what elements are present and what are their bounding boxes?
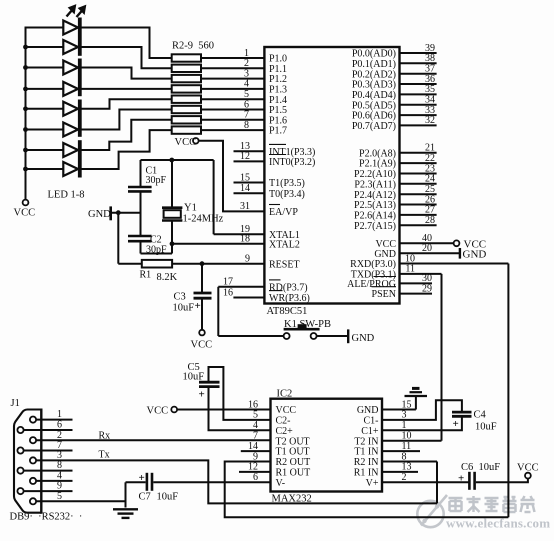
capacitor C6 (468, 472, 471, 490)
wire R4 to pin 3 (201, 78, 264, 80)
svg-text:10uF: 10uF (475, 422, 497, 433)
svg-text:P0.5(AD5): P0.5(AD5) (352, 100, 396, 111)
wire C2 bottom to XTAL2 (140, 241, 142, 253)
svg-text:29: 29 (422, 283, 432, 294)
node GND junction (116, 210, 121, 215)
capacitor C2 (128, 235, 152, 238)
wire DB9 pin8 stub (24, 470, 73, 472)
wire R2IN to Tx net (382, 461, 437, 463)
svg-text:7: 7 (253, 431, 258, 442)
svg-text:38: 38 (425, 53, 435, 64)
svg-text:20: 20 (422, 243, 432, 254)
LED D2 (26, 46, 64, 48)
LED D1 (26, 27, 64, 29)
node LED bus junction 2 (23, 45, 28, 50)
svg-text:22: 22 (425, 153, 435, 164)
wire LED2 to R3 (80, 47, 172, 68)
node XTAL2 junction (170, 241, 175, 246)
wire V+ pin2 to C6 (382, 481, 469, 483)
svg-text:T0(P3.4): T0(P3.4) (269, 189, 305, 200)
connector pin 1 (30, 417, 36, 423)
switch K1 contact right (311, 333, 317, 339)
svg-text:36: 36 (425, 74, 435, 85)
resistor R4 (172, 75, 201, 82)
wire Tx net DB9 pin3 (36, 460, 437, 503)
svg-text:26: 26 (425, 194, 435, 205)
wire LED8 to R9 (80, 130, 172, 169)
svg-text:P1.7: P1.7 (269, 126, 287, 137)
svg-text:GND: GND (88, 209, 111, 220)
wire P2.6 stub (400, 214, 437, 216)
overline INT0 (269, 154, 286, 156)
svg-text:T1 IN: T1 IN (354, 447, 378, 458)
svg-text:AT89C51: AT89C51 (267, 306, 308, 317)
wire P0.0 stub (400, 52, 437, 54)
svg-text:12: 12 (240, 151, 250, 162)
connector pin 9 (17, 488, 23, 494)
svg-text:C7: C7 (139, 492, 151, 503)
svg-text:EA/VP: EA/VP (269, 207, 298, 218)
power VCC terminal (C3) (199, 330, 205, 336)
node LED bus junction 3 (23, 65, 28, 70)
svg-text:VCC: VCC (14, 208, 36, 219)
connector pin 2 (30, 437, 36, 443)
wire C1 top leg (140, 160, 142, 186)
overline INT1 (269, 143, 286, 145)
node RESET junction (200, 261, 205, 266)
LED light-emission arrows (67, 6, 85, 17)
svg-text:16: 16 (223, 287, 233, 298)
wire C3 bottom leg (201, 298, 203, 330)
wire P2.1 stub (400, 162, 437, 164)
svg-text:GND: GND (357, 405, 379, 416)
svg-text:LED 1-8: LED 1-8 (48, 190, 85, 201)
svg-text:C1-: C1- (364, 416, 379, 427)
wire C6 to VCC (476, 479, 528, 483)
switch K1 contact left (284, 333, 290, 339)
wire DB9 pin5 to GND (36, 500, 125, 502)
wire pin 40 VCC (400, 242, 454, 244)
svg-text:5: 5 (57, 491, 62, 502)
svg-text:P2.5(A13): P2.5(A13) (354, 200, 396, 211)
svg-text:C2-: C2- (276, 416, 291, 427)
wire C1-C2 mid leg (140, 191, 142, 236)
switch K1 actuator (284, 328, 320, 331)
svg-text:+: + (453, 418, 459, 430)
svg-text:VCC: VCC (276, 405, 297, 416)
svg-text:P0.7(AD7): P0.7(AD7) (352, 121, 396, 132)
wire LED6 to R7 (80, 110, 172, 130)
capacitor C5 (199, 381, 220, 384)
svg-text:Rx: Rx (99, 430, 111, 441)
resistor R5 (172, 85, 201, 92)
wire C1- pin3 to C4 top (382, 400, 462, 420)
wire C7 to V- (153, 481, 270, 483)
wire R1IN stub (382, 471, 418, 473)
svg-text:T2 IN: T2 IN (354, 436, 378, 447)
wire DB9 pin9 stub (24, 490, 73, 492)
svg-text:+: + (199, 389, 205, 401)
svg-text:6: 6 (253, 472, 258, 483)
capacitor C4 (452, 411, 472, 414)
svg-text:PSEN: PSEN (372, 289, 396, 300)
LED D6 (26, 129, 64, 131)
svg-text:C1+: C1+ (361, 426, 379, 437)
node LED bus junction 6 (23, 127, 28, 132)
resistor R9 (172, 126, 201, 133)
wire C5 top to C2- pin5 (209, 367, 271, 420)
wire P0.4 stub (400, 93, 437, 95)
crystal Y1 (171, 160, 173, 207)
wire GND pin15 (382, 409, 416, 411)
LED D7 (26, 149, 64, 151)
ground symbol (IC2 pin15) (405, 395, 428, 397)
wire R5 to pin 4 (201, 88, 264, 90)
svg-text:30pF: 30pF (146, 175, 167, 186)
wire Rx net DB9 pin2 to T2OUT (36, 439, 270, 441)
wire LED3 to R4 (80, 68, 172, 79)
svg-text:10uF: 10uF (183, 372, 205, 383)
wire pin 14 stub (234, 192, 265, 194)
wire P2.5 stub (400, 204, 437, 206)
wire R6 to pin 5 (201, 98, 264, 100)
LED cathode bar pair 3 (78, 100, 82, 137)
node LED bus junction 5 (23, 106, 28, 111)
wire R2OUT to RXD net (225, 462, 509, 518)
wire P2.0 stub (400, 152, 437, 154)
svg-text:1: 1 (57, 409, 62, 420)
svg-text:R1: R1 (140, 270, 152, 281)
wire C3 top leg (201, 264, 203, 293)
wire R3 to pin 2 (201, 67, 264, 69)
overline RD (269, 279, 281, 281)
wire XTAL1 branch (213, 160, 215, 234)
svg-text:IC2: IC2 (277, 389, 293, 400)
wire XTAL2 row (172, 243, 264, 245)
wire R7 to pin 6 (201, 109, 264, 111)
capacitor C3 (194, 292, 212, 295)
svg-text:Y1: Y1 (184, 203, 197, 214)
wire P0.1 stub (400, 62, 437, 64)
ground bar (pin20) (459, 248, 461, 259)
wire TXD(P3.1) to T2IN net (400, 273, 442, 275)
wire LED1 to R2 (80, 28, 172, 59)
LED cathode bar pair 1 (78, 18, 82, 56)
svg-text:11: 11 (405, 264, 415, 275)
wire LED7 to R8 (80, 120, 172, 150)
wire R1OUT stub (239, 471, 271, 473)
op-amp U2 MAX232 body (271, 399, 383, 492)
svg-text:34: 34 (425, 95, 435, 106)
wire P0.3 stub (400, 83, 437, 85)
wire T1OUT stub (241, 450, 271, 452)
wire C4 bottom to C1+ pin1 (382, 416, 462, 430)
resistor R6 (172, 96, 201, 103)
svg-text:R2 OUT: R2 OUT (276, 457, 311, 468)
wire pin 15 stub (234, 182, 265, 184)
wire VCC bus vertical (25, 27, 27, 200)
svg-text:P0.1(AD1): P0.1(AD1) (352, 59, 396, 70)
svg-text:28: 28 (425, 215, 435, 226)
wire DB9 pin6 stub (24, 429, 73, 431)
svg-text:8: 8 (244, 120, 249, 131)
svg-text:MAX232: MAX232 (272, 494, 312, 505)
node crystal top junction (169, 158, 174, 163)
svg-text:+: + (139, 472, 145, 484)
wire pin 12 stub (234, 160, 265, 162)
svg-text:RXD(P3.0): RXD(P3.0) (350, 259, 396, 270)
svg-text:C3: C3 (174, 292, 186, 303)
overline WR (269, 290, 283, 292)
svg-text:10uF: 10uF (173, 303, 195, 314)
svg-text:RD(P3.7): RD(P3.7) (269, 282, 308, 293)
svg-text:J1: J1 (11, 398, 20, 409)
svg-text:P0.3(AD3): P0.3(AD3) (352, 80, 396, 91)
wire T1IN stub (382, 450, 420, 452)
wire LED4 to R5 (80, 88, 172, 90)
watermark elecfans logo (417, 495, 447, 527)
wire LED5 to R6 (80, 99, 172, 109)
power VCC terminal (LED bus) (23, 200, 29, 206)
wire RD down to K1 (217, 287, 219, 336)
LED D5 (26, 108, 64, 110)
svg-text:VCC: VCC (517, 463, 539, 474)
wire PSEN stub (400, 293, 433, 295)
wire P0.7 stub (400, 124, 437, 126)
svg-text:VCC: VCC (191, 340, 213, 351)
wire P0.6 stub (400, 114, 437, 116)
svg-text:R2 IN: R2 IN (354, 457, 379, 468)
LED D8 (26, 168, 64, 170)
LED cathode bar pair 2 (78, 59, 82, 97)
wire T2IN pin10 (382, 440, 442, 442)
capacitor C7 (146, 473, 149, 491)
resistor R2 (172, 54, 201, 61)
svg-text:R1 IN: R1 IN (354, 468, 379, 479)
wire GND leg (C7) (125, 482, 127, 507)
LED D4 (26, 88, 64, 90)
wire XTAL top net (141, 159, 214, 161)
LED cathode bar pair 4 (78, 140, 82, 177)
svg-text:C4: C4 (474, 410, 487, 421)
node LED bus junction 8 (23, 167, 28, 172)
wire WR stub (233, 297, 264, 299)
wire DB9 pin4 stub (36, 480, 72, 482)
wire K1 to GND (317, 335, 349, 337)
svg-text:INT0(P3.2): INT0(P3.2) (269, 157, 315, 168)
svg-text:14: 14 (240, 183, 250, 194)
wire pin 13 stub (234, 150, 265, 152)
wire ALE stub (400, 282, 433, 284)
wire VCC to pin16 (177, 409, 270, 411)
overline PROG (374, 276, 397, 278)
power VCC terminal (C6) (525, 473, 531, 479)
svg-text:T1 OUT: T1 OUT (276, 447, 310, 458)
op-amp U1 AT89C51 body (264, 47, 399, 304)
svg-text:P2.1(A9): P2.1(A9) (359, 159, 396, 170)
overline EA (269, 204, 280, 206)
svg-text:Tx: Tx (99, 450, 110, 461)
connector pin 5 (30, 498, 36, 504)
svg-text:XTAL2: XTAL2 (269, 239, 300, 250)
connector pin 6 (17, 427, 23, 433)
overline PSEN (372, 286, 397, 288)
svg-text:P2.3(A11): P2.3(A11) (354, 179, 396, 190)
svg-text:+: + (195, 300, 201, 312)
svg-text:RESET: RESET (269, 259, 300, 270)
connector pin 3 (30, 457, 36, 463)
svg-text:T2 OUT: T2 OUT (276, 436, 310, 447)
LED D3 (26, 67, 64, 69)
wire P0.5 stub (400, 104, 437, 106)
svg-text:WR(P3.6): WR(P3.6) (269, 293, 310, 304)
resistor R1 (142, 260, 172, 268)
svg-text:VCC: VCC (147, 405, 169, 416)
wire RESET row (172, 263, 264, 265)
wire C7 left leg (126, 481, 146, 483)
connector pin 8 (17, 468, 23, 474)
svg-text:32: 32 (425, 115, 435, 126)
wire GND down to R1 (117, 213, 119, 264)
svg-text:8.2K: 8.2K (157, 272, 178, 283)
resistor R7 (172, 106, 201, 113)
svg-text:1-24MHz: 1-24MHz (183, 214, 224, 225)
wire R8 to pin 7 (201, 119, 264, 121)
svg-text:10uF: 10uF (157, 492, 179, 503)
capacitor C1 (128, 186, 152, 189)
wire R2 to pin 1 (201, 57, 264, 59)
svg-text:V+: V+ (366, 478, 379, 489)
wire P2.2 stub (400, 173, 437, 175)
svg-text:V-: V- (276, 478, 286, 489)
svg-text:GND: GND (352, 333, 375, 344)
wire R9 to pin 8 (201, 129, 264, 131)
ground symbol (C7) (113, 508, 138, 510)
connector pin 4 (30, 478, 36, 484)
wire VCC to EA/VP (199, 141, 265, 212)
wire RXD(P3.0) to R2OUT net (400, 263, 509, 265)
wire pin 20 GND (400, 252, 460, 254)
wire P0.2 stub (400, 73, 437, 75)
svg-text:DB9· ·RS232· ·: DB9· ·RS232· · (10, 512, 83, 523)
svg-text:GND: GND (463, 248, 487, 260)
connector pin 7 (17, 447, 23, 453)
wire P2.7 stub (400, 224, 437, 226)
svg-text:+: + (458, 473, 464, 485)
wire RD(P3.7) row (218, 286, 264, 288)
svg-text:C6 10uF: C6 10uF (461, 462, 500, 473)
ground bar (K1) (347, 329, 349, 343)
svg-text:P2.7(A15): P2.7(A15) (354, 221, 396, 232)
svg-text:15: 15 (240, 172, 250, 183)
wire DB9 pin7 stub (24, 450, 73, 452)
resistor R3 (172, 65, 201, 72)
svg-text:R2-9 560: R2-9 560 (172, 41, 214, 52)
power VCC terminal (pin40) (454, 240, 460, 246)
resistor R8 (172, 116, 201, 123)
wire C5 bottom to C2+ pin4 (209, 387, 271, 431)
svg-text:T1(P3.5): T1(P3.5) (269, 178, 305, 189)
svg-text:C2+: C2+ (276, 426, 294, 437)
wire GND to C1C2 (112, 212, 141, 214)
node LED bus junction 4 (23, 87, 28, 92)
svg-text:24: 24 (425, 174, 435, 185)
svg-text:R1 OUT: R1 OUT (276, 468, 311, 479)
svg-text:10: 10 (405, 253, 415, 264)
connector J1 DB9 outline (14, 410, 41, 513)
node LED bus junction 7 (23, 148, 28, 153)
wire P2.3 stub (400, 183, 437, 185)
wire P2.4 stub (400, 193, 437, 195)
wire DB9 pin1 stub (36, 419, 72, 421)
